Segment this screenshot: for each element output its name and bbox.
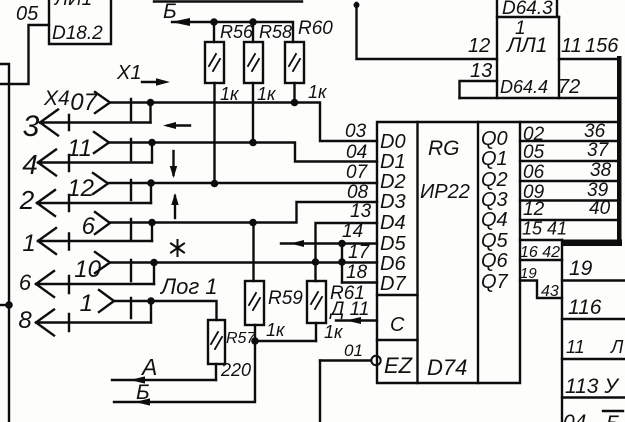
svg-text:12: 12	[468, 35, 490, 57]
svg-text:12: 12	[67, 175, 94, 202]
svg-text:13: 13	[470, 60, 492, 82]
svg-text:А: А	[140, 354, 157, 380]
svg-text:1к: 1к	[266, 320, 286, 340]
svg-text:37: 37	[587, 140, 610, 161]
svg-text:ЛИ1: ЛИ1	[53, 0, 92, 10]
svg-text:40: 40	[589, 198, 611, 219]
svg-text:Q1: Q1	[481, 148, 508, 170]
svg-text:RG: RG	[428, 137, 460, 160]
svg-text:06: 06	[523, 162, 545, 183]
svg-text:38: 38	[590, 160, 612, 181]
svg-text:Б: Б	[163, 0, 177, 23]
svg-text:3: 3	[23, 110, 40, 143]
svg-text:D7: D7	[380, 273, 406, 295]
svg-text:07: 07	[70, 89, 98, 116]
svg-text:08: 08	[347, 182, 369, 203]
svg-text:D1: D1	[380, 151, 406, 173]
svg-text:D2: D2	[380, 171, 406, 193]
svg-text:04: 04	[346, 142, 367, 163]
svg-text:11: 11	[566, 337, 585, 357]
svg-text:Лог 1: Лог 1	[159, 274, 218, 299]
svg-text:19: 19	[569, 257, 593, 280]
svg-text:Q7: Q7	[481, 271, 509, 293]
svg-text:6: 6	[19, 270, 32, 295]
svg-text:220: 220	[220, 360, 251, 380]
svg-text:1: 1	[22, 230, 35, 257]
svg-text:R57: R57	[226, 330, 256, 347]
svg-text:Д 11: Д 11	[329, 299, 369, 320]
svg-text:Q2: Q2	[481, 169, 508, 191]
svg-text:116: 116	[568, 296, 602, 319]
svg-text:D0: D0	[380, 131, 406, 153]
svg-text:11: 11	[67, 135, 92, 162]
svg-text:EZ: EZ	[384, 353, 414, 378]
svg-text:1: 1	[80, 290, 93, 317]
svg-text:05: 05	[523, 142, 545, 163]
svg-text:36: 36	[584, 121, 606, 142]
svg-text:4: 4	[22, 149, 38, 180]
svg-text:07: 07	[346, 162, 369, 183]
svg-text:C: C	[390, 314, 405, 336]
svg-text:19: 19	[520, 265, 537, 282]
svg-text:Q3: Q3	[481, 189, 508, 211]
svg-text:Л: Л	[610, 337, 624, 357]
svg-text:11: 11	[561, 35, 582, 57]
svg-text:1к: 1к	[324, 322, 344, 342]
svg-text:Б: Б	[606, 412, 620, 422]
svg-text:156: 156	[585, 35, 619, 57]
svg-text:R59: R59	[268, 288, 303, 309]
svg-text:17: 17	[348, 242, 371, 263]
svg-text:12: 12	[523, 199, 545, 220]
svg-text:X1: X1	[116, 62, 141, 84]
svg-text:Б: Б	[136, 381, 150, 404]
svg-text:16 42: 16 42	[520, 244, 560, 261]
svg-text:R56: R56	[220, 22, 254, 42]
svg-text:14: 14	[342, 221, 363, 242]
svg-text:D74: D74	[427, 355, 467, 380]
svg-text:R58: R58	[259, 22, 292, 42]
svg-text:10: 10	[74, 256, 101, 283]
svg-text:D4: D4	[380, 212, 406, 234]
svg-text:43: 43	[541, 283, 559, 300]
svg-text:113 У: 113 У	[565, 375, 620, 398]
svg-text:05: 05	[16, 3, 39, 25]
svg-text:03: 03	[345, 121, 367, 142]
svg-text:1к: 1к	[257, 84, 277, 104]
svg-text:R60: R60	[298, 18, 333, 39]
svg-text:04: 04	[563, 411, 586, 422]
svg-text:1к: 1к	[308, 82, 328, 102]
svg-text:D3: D3	[380, 191, 406, 213]
svg-text:D18.2: D18.2	[52, 23, 103, 44]
svg-text:ЛЛ1: ЛЛ1	[505, 34, 547, 57]
svg-text:Q4: Q4	[481, 209, 508, 231]
svg-text:2: 2	[19, 185, 35, 215]
svg-text:18: 18	[346, 262, 368, 283]
svg-text:ИР22: ИР22	[420, 181, 470, 203]
svg-text:15 41: 15 41	[522, 219, 567, 239]
svg-text:6: 6	[82, 213, 96, 240]
svg-text:X4: X4	[43, 87, 70, 110]
svg-text:Q6: Q6	[481, 250, 509, 272]
svg-text:13: 13	[350, 201, 372, 222]
svg-text:8: 8	[18, 307, 32, 334]
svg-text:Q0: Q0	[481, 128, 508, 150]
svg-text:Q5: Q5	[481, 230, 509, 252]
svg-text:D6: D6	[380, 253, 406, 275]
svg-text:D64.4: D64.4	[500, 77, 548, 97]
svg-text:D64.3: D64.3	[502, 0, 553, 19]
svg-text:72: 72	[558, 76, 580, 98]
svg-text:01: 01	[344, 341, 363, 360]
svg-text:1к: 1к	[220, 84, 240, 104]
svg-text:D5: D5	[380, 233, 406, 255]
